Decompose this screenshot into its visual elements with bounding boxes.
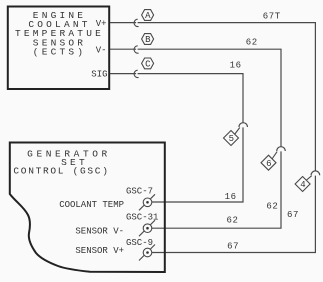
svg-text:SENSOR V+: SENSOR V+ <box>75 246 124 256</box>
connector pin hexagon A <box>142 10 154 22</box>
svg-text:67T: 67T <box>263 11 281 21</box>
svg-text:SENSOR V-: SENSOR V- <box>75 226 124 236</box>
harness diamond 4 <box>295 177 310 192</box>
wire V- stub <box>110 48 136 50</box>
connector pin hexagon B <box>142 34 154 46</box>
svg-text:GSC-9: GSC-9 <box>126 238 153 248</box>
ECTS title text <box>15 10 104 58</box>
terminal GSC-9 contact <box>139 245 155 261</box>
connector pin hexagon C <box>142 58 154 70</box>
ECTS component box <box>8 7 109 90</box>
GSC component box with torn lower-left edge <box>10 143 165 273</box>
wire 16 from pin C: right, down, left into GSC-7 <box>138 74 243 123</box>
svg-text:V-: V- <box>96 45 107 55</box>
connector arc A <box>134 19 139 26</box>
svg-text:V+: V+ <box>96 19 107 29</box>
svg-text:4: 4 <box>300 180 305 190</box>
wire 67 from pin A: right, down right edge, left into GSC-9 <box>138 23 316 171</box>
svg-text:COOLANT TEMP: COOLANT TEMP <box>59 200 124 210</box>
harness leader 4 <box>306 176 312 181</box>
harness hook on wire 67 <box>311 171 320 175</box>
wire SIG stub <box>110 73 136 75</box>
harness diamond 6 <box>261 155 276 170</box>
GSC title text <box>13 149 110 177</box>
svg-text:6: 6 <box>266 159 271 169</box>
harness hook on wire 16 <box>239 123 248 127</box>
svg-text:CONTROL (GSC): CONTROL (GSC) <box>13 165 109 176</box>
svg-text:62: 62 <box>246 37 258 47</box>
wire 62 from pin B: right, down, left into GSC-31 <box>138 49 281 147</box>
connector arc B <box>134 46 139 53</box>
harness leader 6 <box>272 152 277 159</box>
harness leader 5 <box>235 128 240 135</box>
svg-text:5: 5 <box>229 134 234 144</box>
svg-text:67: 67 <box>287 210 299 220</box>
svg-text:62: 62 <box>226 216 238 226</box>
wire V+ stub <box>110 22 136 24</box>
harness diamond 5 <box>224 131 239 146</box>
connector arc C <box>134 70 139 77</box>
svg-text:GSC-7: GSC-7 <box>126 187 153 197</box>
svg-text:67: 67 <box>227 241 239 251</box>
svg-text:16: 16 <box>225 192 237 202</box>
svg-text:C: C <box>145 60 151 70</box>
svg-text:SIG: SIG <box>91 70 107 80</box>
svg-text:A: A <box>145 11 151 21</box>
svg-text:B: B <box>145 35 151 45</box>
terminal GSC-31 contact <box>139 220 155 236</box>
terminal GSC-7 contact <box>139 194 155 210</box>
svg-text:16: 16 <box>230 60 242 70</box>
harness hook on wire 62 <box>277 147 286 151</box>
svg-text:(ECTS): (ECTS) <box>33 47 86 58</box>
svg-text:62: 62 <box>266 202 278 212</box>
